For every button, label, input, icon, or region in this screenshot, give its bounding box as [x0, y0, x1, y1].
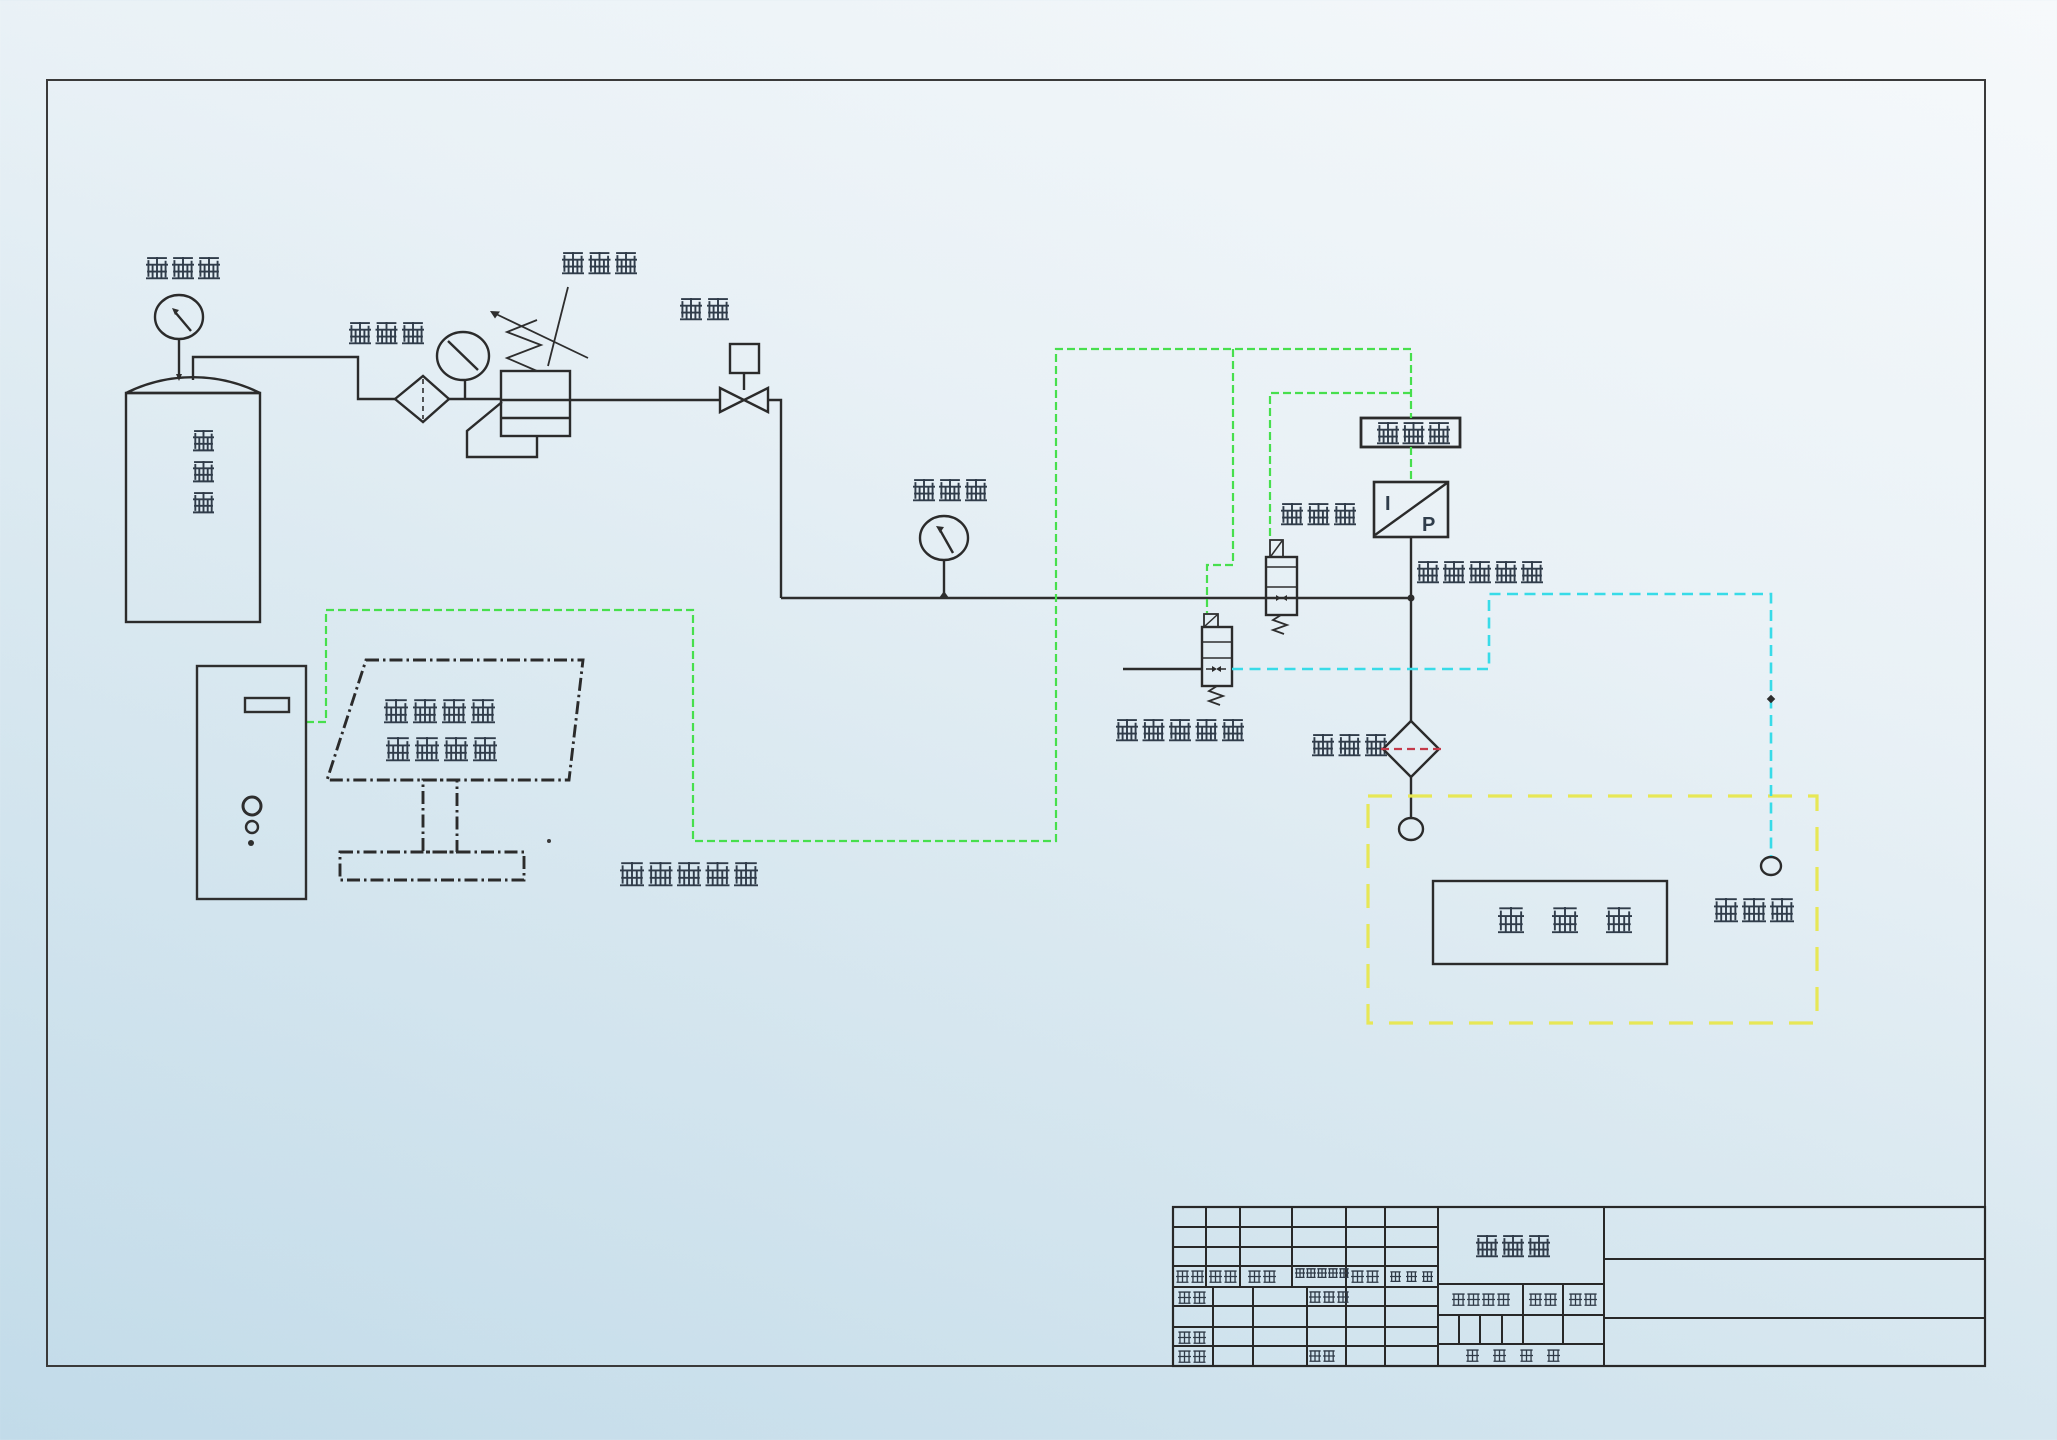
label 压力传感器: [1417, 561, 1439, 583]
label 标准化: [1309, 1292, 1321, 1302]
wire bottle to filter: [193, 357, 395, 399]
filter 过滤器 #2 diamond: [1383, 721, 1439, 777]
red line in filter2: [1381, 748, 1441, 750]
green data line main loop: [306, 349, 1411, 841]
wire valve to main line: [767, 400, 781, 598]
label 更改文件号: [1295, 1269, 1305, 1278]
cyan dashed relief line: [1232, 594, 1771, 856]
label 试压件: [1498, 907, 1524, 933]
relief valve pilot: [1204, 614, 1218, 627]
label 卸压口: [1714, 898, 1738, 922]
wire I/P stem: [1410, 537, 1412, 598]
tower button 2: [246, 821, 258, 833]
label 过滤器 #1: [349, 322, 371, 344]
wire filter2 to drain circle: [1410, 777, 1412, 818]
label 开关: [680, 298, 702, 320]
label 批准: [1309, 1351, 1321, 1361]
label 数据采集线: [620, 862, 644, 886]
label 设计: [1178, 1292, 1191, 1303]
regulator spring: [507, 320, 541, 371]
nitrogen bottle 氮气瓶: [126, 377, 260, 393]
regulator 调压阀 body: [501, 371, 570, 436]
green data line to display: [1410, 447, 1412, 482]
label 工艺: [1178, 1351, 1191, 1362]
test piece 试压件 box: [1433, 881, 1667, 964]
wire junction down to filter2: [1410, 598, 1412, 721]
label 比例: [1569, 1294, 1582, 1305]
wire main line: [781, 597, 1411, 599]
wire through regulator: [501, 399, 570, 401]
valve actuator square: [730, 344, 759, 373]
wire regulator to valve: [570, 399, 720, 401]
gauge 高压表 #1: [155, 295, 203, 339]
wire filter to regulator: [449, 398, 501, 400]
wire regulator gauge stem: [464, 380, 466, 399]
title block outer: [1173, 1207, 1985, 1366]
yellow dashed enclosure: [1368, 796, 1817, 1023]
relief valve spring: [1209, 686, 1223, 705]
label 氮气瓶 (vertical): [193, 430, 214, 451]
monitor stand: [423, 780, 457, 852]
label 阶段标记: [1452, 1294, 1465, 1305]
node main junction: [1408, 595, 1415, 602]
label 年月日: [1390, 1272, 1401, 1281]
label 数显表: [1377, 422, 1399, 444]
I/P converter box: [1374, 482, 1448, 537]
tower button 1: [243, 797, 261, 815]
wire gauge1 stem: [178, 339, 180, 374]
label 共张第张: [1466, 1350, 1479, 1361]
solenoid spring: [1273, 615, 1287, 634]
relief valve 高压卸压阀 body: [1202, 627, 1232, 686]
title block grid: [1173, 1207, 1985, 1366]
label 签名: [1351, 1271, 1364, 1282]
gauge 高压表 #2: [920, 516, 968, 560]
label 调压阀: [562, 252, 584, 274]
regulator drain loop: [467, 402, 537, 457]
solenoid pilot: [1270, 540, 1283, 557]
svg-text:I: I: [1385, 493, 1391, 515]
svg-text:P: P: [1422, 514, 1435, 536]
gauge on regulator: [437, 332, 489, 380]
valve 开关 bowtie: [720, 388, 768, 412]
label 过滤器 #2: [1312, 734, 1334, 756]
wire gauge2 stem: [943, 560, 945, 598]
label 原理图: [1476, 1235, 1498, 1257]
label 高压表 (left gauge): [146, 257, 168, 279]
computer tower: [197, 666, 306, 899]
label 标记: [1176, 1271, 1189, 1282]
label 分区: [1248, 1271, 1261, 1282]
relief port 卸压口 circle: [1761, 857, 1781, 875]
label 重量: [1529, 1294, 1542, 1305]
regulator adjust arrow: [496, 314, 588, 358]
filter 过滤器 #1 diamond: [395, 376, 449, 422]
label 数据采集: [384, 699, 408, 723]
monitor screen parallelogram: [327, 660, 583, 780]
solenoid valve 电磁阀 body: [1266, 557, 1297, 615]
label 控制系统: [386, 737, 410, 761]
wire relief valve feed: [1123, 668, 1202, 670]
node speck on green line: [547, 839, 551, 843]
tower button 3: [248, 840, 254, 846]
digital display 数显表 box: [1361, 418, 1460, 447]
tower slot: [245, 698, 289, 712]
monitor base: [340, 852, 524, 880]
green data line to relief pilot: [1207, 349, 1233, 613]
drain port circle: [1399, 818, 1423, 840]
label 处数: [1209, 1271, 1222, 1282]
node gauge junction: [939, 591, 949, 598]
label 高压卸压阀: [1116, 719, 1138, 741]
green data line to solenoid pilot: [1270, 393, 1411, 539]
label 审核: [1178, 1332, 1191, 1343]
label 高压表 #2: [913, 479, 935, 501]
node cyan dot: [1767, 695, 1775, 703]
label 电磁阀: [1281, 503, 1303, 525]
